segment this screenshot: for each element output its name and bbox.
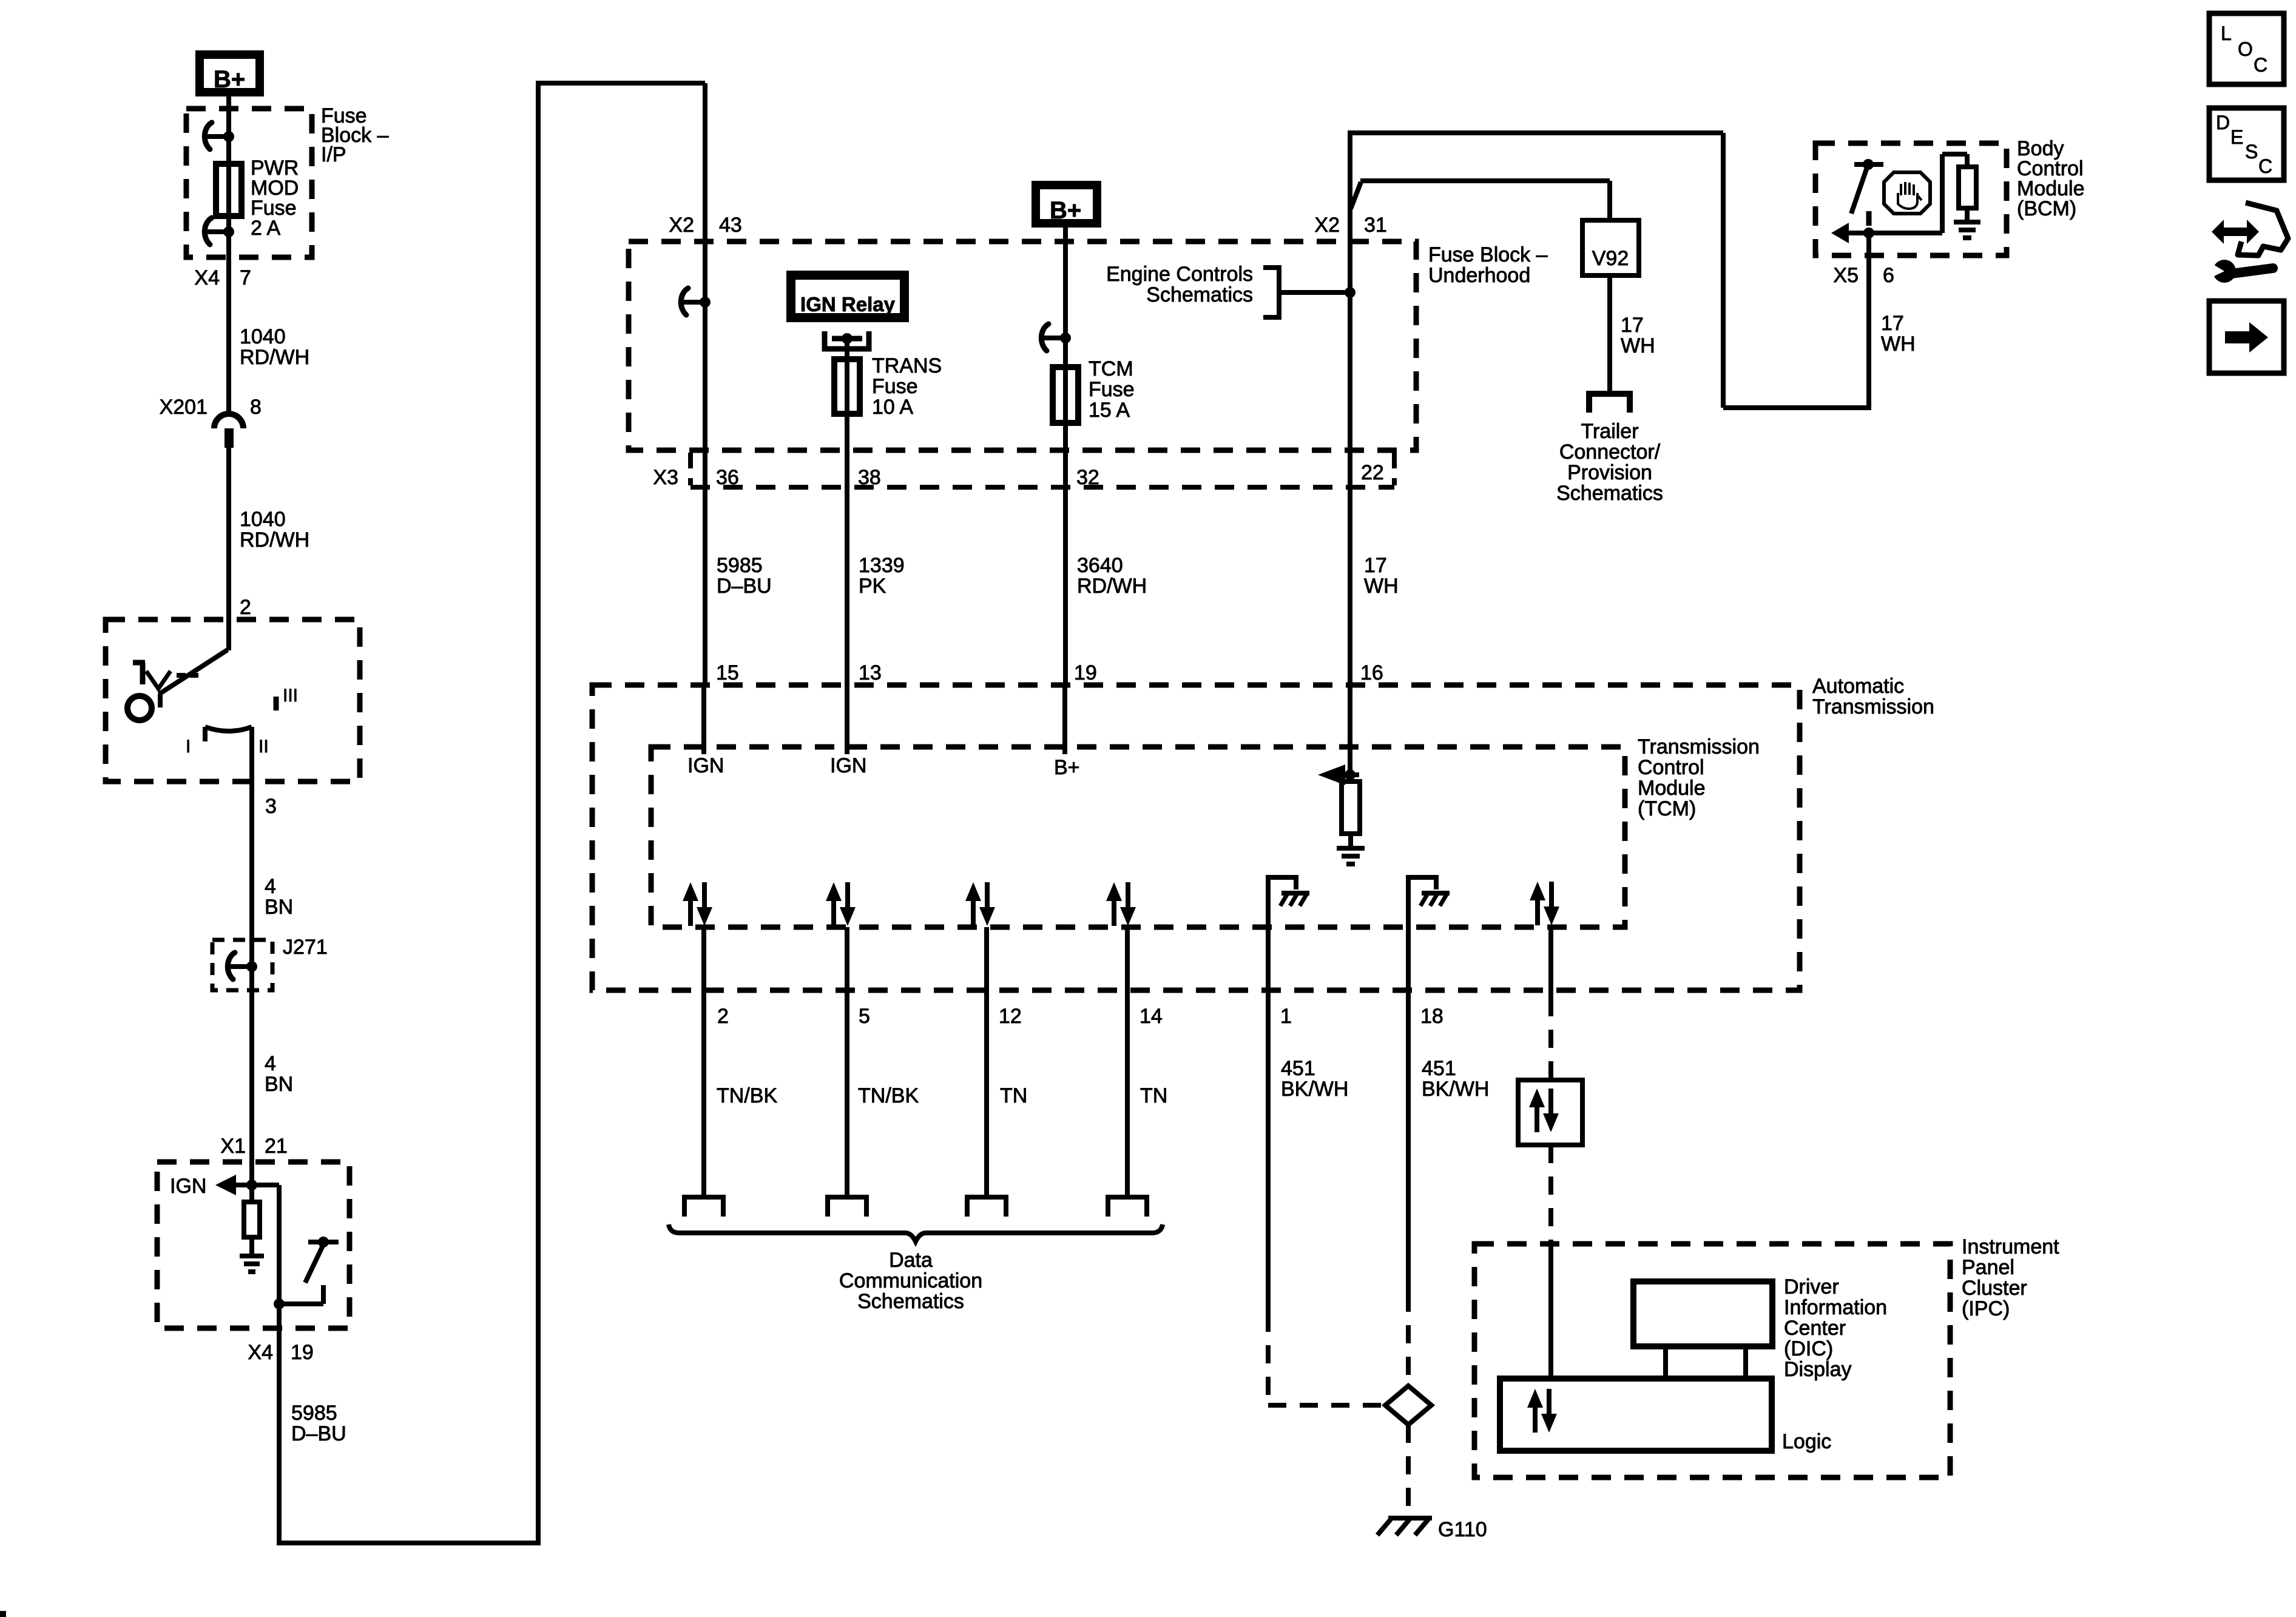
svg-text:Fuse Block –: Fuse Block – — [1428, 243, 1548, 266]
BCM right internal switch — [1863, 159, 1874, 170]
svg-text:Schematics: Schematics — [1146, 283, 1253, 306]
svg-text:X201: X201 — [160, 396, 208, 419]
svg-text:1040: 1040 — [240, 325, 286, 348]
power symbol B+ (top left) — [195, 50, 264, 96]
svg-text:I: I — [186, 737, 191, 757]
half connector clip top (fuse block I/P) — [204, 123, 212, 149]
svg-text:17: 17 — [1881, 312, 1904, 335]
svg-text:IGN: IGN — [830, 754, 866, 777]
BCM internal ground — [240, 1254, 264, 1258]
svg-text:22: 22 — [1361, 461, 1384, 484]
ignition switch dashed box — [106, 619, 360, 781]
fuse TRANS 10A — [834, 359, 860, 414]
icon forward arrow box — [2209, 301, 2284, 373]
svg-text:5985: 5985 — [717, 554, 763, 577]
TCM serial data arrows pin 14 — [1112, 899, 1116, 926]
svg-text:X1: X1 — [220, 1135, 246, 1158]
svg-text:36: 36 — [716, 466, 739, 489]
svg-text:Control: Control — [1638, 756, 1704, 779]
wire into BCM resistor — [249, 1163, 254, 1202]
svg-text:X3: X3 — [653, 466, 678, 489]
icon two-way arrow with wrench — [2212, 220, 2259, 244]
wire 451 BK/WH pin 1 — [1266, 927, 1271, 1314]
svg-text:WH: WH — [1364, 575, 1399, 598]
svg-text:(BCM): (BCM) — [2017, 197, 2076, 220]
svg-text:17: 17 — [1621, 314, 1644, 337]
BCM right arrow and node — [1831, 223, 1849, 243]
svg-text:WH: WH — [1881, 333, 1916, 356]
svg-text:Underhood: Underhood — [1428, 264, 1530, 287]
BCM output switch — [318, 1237, 329, 1247]
TCM dashed box — [651, 747, 1625, 927]
wire B+ to fuse block I/P — [226, 96, 231, 137]
svg-text:O: O — [2238, 38, 2253, 60]
wire relay to TRANS fuse — [845, 339, 849, 685]
icon LOC box — [2209, 13, 2284, 84]
wire BCM output pin X4-19 — [277, 1304, 282, 1543]
svg-text:5: 5 — [859, 1005, 870, 1028]
stop hand icon hand — [1901, 182, 1914, 195]
TCM serial data arrows pin 5 — [831, 899, 836, 926]
wire 451 BK/WH pin 18 — [1406, 927, 1411, 1294]
svg-text:31: 31 — [1364, 214, 1387, 237]
splice J271 clip — [228, 953, 235, 979]
ignition switch detent arc and position ticks — [205, 727, 252, 731]
half connector clip (pin 43 feed) — [681, 288, 688, 315]
svg-text:Schematics: Schematics — [857, 1290, 964, 1313]
wire TCM to IPC serial — [1548, 927, 1553, 998]
ignition key symbol — [133, 663, 145, 684]
TCM pin16 arrow node — [1318, 765, 1345, 785]
svg-text:RD/WH: RD/WH — [240, 528, 309, 552]
svg-text:D: D — [2216, 112, 2230, 133]
svg-text:2: 2 — [240, 596, 251, 619]
ground G110 — [1388, 1516, 1432, 1521]
TCM serial data arrows pin 12 — [971, 899, 976, 926]
svg-text:Logic: Logic — [1782, 1430, 1831, 1453]
wire top run to BCM right — [1348, 130, 1723, 135]
svg-text:L: L — [2221, 22, 2232, 44]
svg-text:Data: Data — [889, 1249, 933, 1272]
svg-text:B+: B+ — [1054, 756, 1080, 779]
svg-text:3640: 3640 — [1077, 554, 1123, 577]
svg-text:(DIC): (DIC) — [1784, 1337, 1833, 1360]
svg-text:X2: X2 — [669, 214, 694, 237]
svg-text:Automatic: Automatic — [1812, 675, 1904, 698]
junction box V92 — [1582, 220, 1639, 275]
wire V92 feed horizontal — [1360, 178, 1610, 183]
wire B+ to TCM fuse — [1063, 228, 1068, 685]
wire 1040 RD/WH upper — [226, 257, 231, 415]
BCM pull resistor — [244, 1202, 260, 1237]
svg-text:B+: B+ — [214, 66, 245, 93]
svg-text:Display: Display — [1784, 1358, 1851, 1381]
body control module BCM dashed box (right) — [1815, 143, 2007, 255]
DIC to logic connector legs — [1663, 1346, 1668, 1379]
svg-text:BN: BN — [265, 896, 293, 919]
relay IGN Relay box — [786, 271, 909, 322]
svg-text:4: 4 — [265, 1052, 276, 1075]
terminal pin 12 — [967, 1197, 1006, 1217]
ignition switch arm — [159, 650, 228, 694]
TCM serial data arrows pin 2 — [688, 899, 693, 926]
svg-text:X2: X2 — [1314, 214, 1340, 237]
wire resistor to ground — [249, 1237, 254, 1256]
svg-text:3: 3 — [265, 795, 277, 818]
BCM right resistor — [1959, 167, 1976, 208]
TCM serial data arrows (IPC link) — [1535, 898, 1540, 925]
stray mark — [0, 1611, 6, 1617]
logic box — [1500, 1379, 1772, 1451]
svg-text:1339: 1339 — [859, 554, 905, 577]
svg-text:Fuse: Fuse — [872, 375, 918, 398]
svg-text:43: 43 — [719, 214, 742, 237]
svg-text:451: 451 — [1422, 1057, 1456, 1080]
svg-text:Center: Center — [1784, 1317, 1846, 1340]
svg-text:1: 1 — [1280, 1005, 1292, 1028]
svg-text:Cluster: Cluster — [1962, 1277, 2027, 1300]
svg-text:TN/BK: TN/BK — [717, 1084, 777, 1107]
half connector clip bottom (fuse block I/P) — [204, 218, 212, 245]
power symbol B+ (middle) — [1032, 181, 1101, 228]
svg-text:IGN Relay: IGN Relay — [800, 293, 896, 316]
svg-text:12: 12 — [999, 1005, 1022, 1028]
wire IGN node to output switch — [252, 1183, 279, 1187]
body control module BCM dashed box (left) — [157, 1162, 349, 1328]
wire serial box to IPC — [1548, 1145, 1553, 1244]
svg-text:RD/WH: RD/WH — [1077, 575, 1147, 598]
BCM right ground — [1954, 220, 1980, 224]
fuse TCM 15A — [1053, 367, 1078, 423]
svg-text:Transmission: Transmission — [1812, 695, 1934, 718]
svg-text:15: 15 — [716, 661, 739, 684]
svg-text:38: 38 — [858, 466, 881, 489]
svg-text:TCM: TCM — [1089, 357, 1133, 380]
TCM chassis ground pin 18 — [1408, 877, 1436, 927]
svg-text:D–BU: D–BU — [291, 1422, 346, 1445]
engine controls bracket — [1263, 268, 1279, 317]
svg-text:7: 7 — [240, 266, 251, 289]
wire resistor to ground (BCM right) — [1965, 208, 1970, 222]
svg-text:8: 8 — [250, 396, 262, 419]
fuse PWR MOD 2A — [216, 164, 241, 216]
terminal pin 14 — [1108, 1197, 1147, 1217]
svg-text:TRANS: TRANS — [872, 354, 942, 377]
svg-text:Instrument: Instrument — [1962, 1235, 2059, 1258]
svg-text:1040: 1040 — [240, 508, 286, 531]
svg-text:Module: Module — [1638, 777, 1706, 800]
svg-text:TN: TN — [1000, 1084, 1027, 1107]
svg-text:V92: V92 — [1592, 247, 1629, 270]
serial data arrows box — [1518, 1080, 1582, 1145]
svg-text:2 A: 2 A — [251, 217, 280, 240]
svg-text:Connector/: Connector/ — [1559, 441, 1661, 464]
svg-text:J271: J271 — [283, 936, 328, 959]
trailer connector terminal — [1589, 394, 1630, 413]
svg-text:I/P: I/P — [321, 143, 346, 166]
wire TN/BK pin 5 — [845, 927, 849, 1197]
svg-text:G110: G110 — [1438, 1518, 1487, 1541]
half connector clip (TCM fuse feed) — [1041, 324, 1048, 351]
svg-text:BN: BN — [265, 1073, 293, 1096]
svg-text:Trailer: Trailer — [1581, 420, 1638, 443]
wire V92 to trailer connector 17 WH — [1607, 275, 1612, 394]
svg-text:14: 14 — [1140, 1005, 1163, 1028]
svg-text:Driver: Driver — [1784, 1275, 1839, 1298]
svg-text:6: 6 — [1883, 264, 1894, 287]
svg-text:Fuse: Fuse — [1089, 378, 1135, 401]
svg-text:IGN: IGN — [170, 1175, 206, 1198]
svg-text:Schematics: Schematics — [1556, 482, 1663, 505]
wire node to resistor loop — [1869, 231, 1942, 235]
svg-text:RD/WH: RD/WH — [240, 346, 309, 369]
svg-text:X4: X4 — [248, 1341, 273, 1364]
svg-text:Information: Information — [1784, 1296, 1887, 1319]
wire TN pin 12 — [984, 927, 989, 1197]
wire 4 BN to BCM — [249, 967, 254, 1163]
svg-text:15 A: 15 A — [1089, 399, 1130, 422]
connector X3 row dashed outline — [688, 453, 693, 485]
svg-text:Provision: Provision — [1567, 461, 1652, 484]
terminal pin 5 — [828, 1197, 866, 1217]
fuse block I/P dashed box — [186, 109, 312, 257]
wire diamond to G110 — [1406, 1425, 1411, 1514]
svg-text:(TCM): (TCM) — [1638, 797, 1696, 820]
wire engine controls to pin 31 feed — [1279, 290, 1350, 295]
wire resistor to TCM ground — [1348, 834, 1353, 848]
svg-text:TN: TN — [1140, 1084, 1167, 1107]
svg-text:PK: PK — [859, 575, 886, 598]
wire run top horizontal — [536, 81, 705, 86]
icon DESC box — [2209, 108, 2284, 180]
automatic transmission dashed box — [592, 685, 1800, 990]
wire 1040 RD/WH lower — [226, 448, 231, 650]
fuse block underhood dashed box — [629, 241, 1416, 450]
logic serial arrows — [1533, 1405, 1538, 1433]
svg-text:II: II — [258, 737, 269, 757]
splice diamond junction — [1385, 1386, 1431, 1425]
svg-text:21: 21 — [265, 1135, 288, 1158]
wire kink to V92 feed — [1351, 182, 1361, 209]
svg-text:TN/BK: TN/BK — [858, 1084, 919, 1107]
svg-text:S: S — [2245, 141, 2258, 163]
svg-text:Engine Controls: Engine Controls — [1106, 263, 1253, 286]
svg-text:C: C — [2258, 155, 2272, 177]
svg-text:D–BU: D–BU — [717, 575, 772, 598]
wire run left bus vertical — [536, 81, 541, 1545]
wire X2-43 into fuse block — [703, 83, 707, 685]
svg-text:C: C — [2254, 54, 2267, 76]
svg-text:32: 32 — [1076, 466, 1099, 489]
svg-text:Panel: Panel — [1962, 1256, 2014, 1279]
TCM internal ground — [1337, 846, 1365, 851]
svg-text:X5: X5 — [1833, 264, 1859, 287]
brace data communication — [669, 1224, 1163, 1241]
svg-text:18: 18 — [1420, 1005, 1443, 1028]
svg-text:BK/WH: BK/WH — [1422, 1078, 1489, 1101]
svg-text:(IPC): (IPC) — [1962, 1297, 2010, 1320]
IGN relay output bracket — [825, 331, 869, 349]
wire X2-31 vertical — [1348, 132, 1352, 775]
svg-text:X4: X4 — [194, 266, 220, 289]
wire through PWR MOD fuse — [226, 137, 231, 257]
svg-text:2: 2 — [717, 1005, 729, 1028]
instrument panel cluster IPC dashed box — [1474, 1244, 1950, 1477]
svg-text:19: 19 — [1074, 661, 1097, 684]
TCM internal resistor — [1342, 781, 1360, 834]
terminal pin 2 — [684, 1197, 723, 1217]
svg-text:13: 13 — [859, 661, 882, 684]
wire ignition switch output pin 3 — [249, 727, 254, 969]
svg-text:Communication: Communication — [839, 1269, 982, 1292]
wire X5-6 from BCM — [1866, 255, 1871, 408]
svg-text:5985: 5985 — [291, 1402, 337, 1425]
svg-text:17: 17 — [1364, 554, 1387, 577]
wire run bottom horizontal — [277, 1541, 538, 1545]
svg-text:Transmission: Transmission — [1638, 735, 1760, 758]
svg-text:E: E — [2230, 126, 2243, 148]
DIC display box — [1633, 1281, 1772, 1346]
svg-text:451: 451 — [1281, 1057, 1315, 1080]
splice J271 dashed box — [212, 940, 272, 990]
svg-text:BK/WH: BK/WH — [1281, 1078, 1348, 1101]
TCM chassis ground pin 1 — [1268, 877, 1296, 927]
wire TN/BK pin 2 — [701, 927, 706, 1197]
svg-text:4: 4 — [265, 875, 276, 898]
svg-text:B+: B+ — [1050, 197, 1081, 224]
stop hand icon octagon — [1884, 172, 1930, 214]
svg-text:WH: WH — [1621, 334, 1655, 357]
inline connector X201 pin 8 — [214, 414, 243, 428]
svg-text:16: 16 — [1360, 661, 1383, 684]
wire TN pin 14 — [1125, 927, 1130, 1197]
svg-text:III: III — [283, 686, 298, 706]
svg-text:19: 19 — [291, 1341, 314, 1364]
svg-text:10 A: 10 A — [872, 396, 913, 419]
svg-text:IGN: IGN — [687, 754, 724, 777]
